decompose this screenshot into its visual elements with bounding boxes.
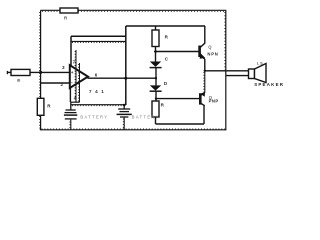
- svg-text:PNP: PNP: [209, 98, 219, 103]
- svg-text:+: +: [71, 70, 74, 75]
- svg-text:3: 3: [62, 65, 65, 70]
- svg-text:NPN: NPN: [207, 51, 218, 56]
- svg-text:LS: LS: [257, 61, 264, 65]
- svg-text:BATTERY: BATTERY: [80, 114, 108, 119]
- svg-text:2: 2: [61, 82, 64, 87]
- svg-text:SPEAKER: SPEAKER: [254, 82, 284, 87]
- svg-text:BATTERY: BATTERY: [132, 114, 160, 119]
- svg-text:741: 741: [89, 89, 107, 94]
